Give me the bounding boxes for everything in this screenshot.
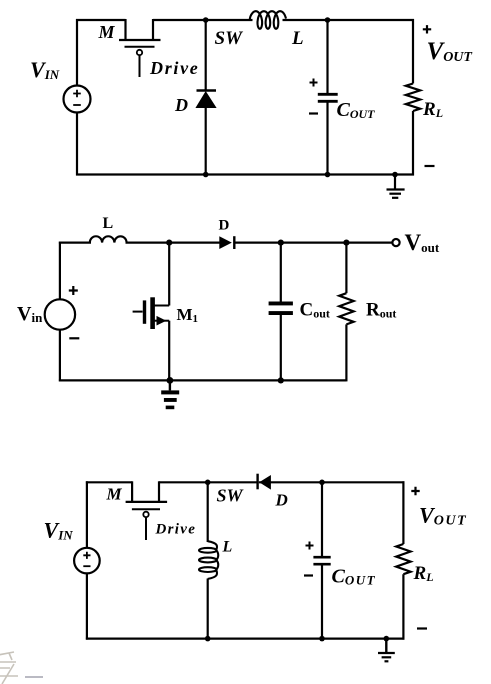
wire right branch RL (buck-boost): [402, 481, 404, 544]
svg-text:M: M: [106, 485, 123, 504]
label minus output (buck): [425, 165, 435, 167]
wire diode to bottom rail (buck): [205, 107, 207, 175]
transistor M gate plate: [125, 46, 155, 48]
transistor M drain rise (buck-boost): [158, 481, 160, 502]
wire bottom rail (buck): [76, 173, 414, 175]
wire output node to COUT (buck): [326, 20, 328, 93]
diode D triangle (buck): [196, 92, 215, 108]
ground symbol (buck): [394, 175, 396, 190]
wire bottom rail (boost): [59, 379, 347, 381]
wire top rail inductor to output node (buck): [283, 19, 415, 21]
wire bottom rail (buck-boost): [86, 637, 405, 639]
wire right branch RL (buck): [412, 19, 414, 84]
transistor M source drop (buck-boost): [131, 481, 133, 502]
source VIN plus sign: [73, 90, 81, 98]
svg-text:D: D: [275, 491, 288, 510]
transistor M gate bubble (buck-boost): [143, 512, 148, 517]
transistor M gate wire: [139, 55, 141, 77]
svg-text:D: D: [219, 218, 230, 234]
node Rout top junction dot (boost): [343, 240, 349, 246]
capacitor COUT plus sign (buck-boost): [306, 542, 314, 550]
capacitor COUT bottom plate (buck): [318, 100, 338, 103]
svg-text:RL: RL: [413, 563, 434, 584]
wire top rail diode to right (buck-boost): [259, 481, 405, 483]
svg-text:Vin: Vin: [17, 303, 43, 325]
wire output node to COUT (buck-boost): [321, 482, 323, 556]
resistor RL zigzag (buck-boost): [396, 544, 410, 574]
svg-text:SW: SW: [217, 486, 245, 506]
ground symbol (buck-boost): [385, 639, 387, 653]
label minus output (buck-boost): [417, 627, 427, 629]
diode D cathode bar (buck): [197, 89, 217, 91]
watermark fragment: [0, 652, 43, 684]
svg-text:Drive: Drive: [155, 522, 197, 538]
capacitor Cout top plate (boost): [269, 302, 293, 306]
svg-text:Cout: Cout: [300, 300, 330, 321]
node drain junction dot (boost): [166, 240, 172, 246]
svg-text:VIN: VIN: [44, 518, 74, 543]
inductor L coil (buck): [250, 11, 286, 29]
capacitor COUT top plate (buck): [318, 93, 338, 96]
label plus Vin (boost): [69, 286, 78, 295]
node output top junction dot (buck-boost): [319, 480, 325, 486]
transistor M top plate: [119, 39, 161, 41]
svg-text:L: L: [103, 215, 114, 232]
wire SW to inductor (buck-boost): [207, 482, 209, 542]
svg-text:L: L: [222, 539, 233, 556]
wire ground stem (boost): [169, 380, 171, 390]
wire left branch VIN (buck): [76, 19, 78, 85]
transistor M top plate (buck-boost): [126, 501, 168, 503]
wire top rail SW segment (buck-boost): [159, 481, 257, 483]
source VIN circle (buck): [64, 86, 91, 113]
wire Rout node down (boost): [345, 243, 347, 294]
transistor M source drop (buck): [124, 19, 126, 40]
svg-text:Vout: Vout: [405, 230, 440, 255]
svg-text:VOUT: VOUT: [427, 38, 474, 65]
transistor M gate plate (buck-boost): [132, 508, 160, 510]
label plus output (buck): [423, 25, 431, 33]
transistor M1 gate lead (boost): [133, 311, 143, 313]
transistor M gate bubble: [137, 50, 142, 55]
node COUT bottom junction dot (buck-boost): [319, 636, 325, 642]
diode D triangle (buck-boost): [259, 475, 271, 490]
svg-text:M1: M1: [177, 305, 199, 325]
resistor RL zigzag (buck): [406, 84, 420, 112]
node ground junction dot (buck): [392, 172, 398, 178]
svg-text:COUT: COUT: [337, 99, 376, 121]
node SW junction dot (buck): [203, 17, 209, 23]
wire Cout to bottom rail (boost): [280, 315, 282, 380]
svg-text:VOUT: VOUT: [419, 503, 467, 529]
capacitor COUT minus sign (buck-boost): [304, 574, 313, 576]
wire COUT to bottom rail (buck-boost): [321, 566, 323, 639]
wire top rail mid segment SW node to inductor (buck): [153, 19, 253, 21]
transistor M1 source stub: [154, 320, 169, 322]
terminal Vout circle (boost): [392, 239, 399, 246]
capacitor COUT top plate (buck-boost): [313, 556, 330, 559]
diode D triangle (boost): [219, 236, 232, 249]
wire drain node down to M1 (boost): [168, 243, 170, 306]
transistor M1 drain stub: [154, 305, 169, 307]
svg-text:VIN: VIN: [30, 57, 60, 82]
wire left branch VIN (buck-boost): [86, 481, 88, 548]
diode D cathode bar (buck-boost): [256, 474, 258, 490]
node ground junction dot (buck-boost): [384, 636, 390, 642]
wire diode to Vout terminal (boost): [236, 242, 393, 244]
svg-text:D: D: [174, 95, 188, 115]
svg-text:SW: SW: [215, 28, 244, 49]
capacitor Cout bottom plate (boost): [269, 311, 293, 315]
wire top rail left segment (buck): [76, 19, 126, 21]
capacitor COUT minus sign: [309, 112, 318, 114]
wire top rail left segment (buck-boost): [86, 481, 132, 483]
capacitor COUT bottom plate (buck-boost): [313, 563, 330, 566]
capacitor COUT plus sign: [310, 79, 318, 87]
transistor M1 channel bar: [150, 297, 155, 329]
svg-text:RL: RL: [422, 99, 443, 120]
svg-text:COUT: COUT: [332, 566, 377, 588]
wire inductor to drain node (boost): [126, 242, 220, 244]
node Cout top junction dot (boost): [278, 240, 284, 246]
transistor M gate wire (buck-boost): [145, 517, 147, 540]
svg-text:M: M: [98, 22, 116, 42]
node SW junction dot (buck-boost): [205, 480, 211, 486]
source VIN minus sign (buck-boost): [83, 565, 90, 567]
wire SW node to diode (buck): [205, 20, 207, 90]
transistor M1 source arrow: [157, 316, 167, 326]
ground symbol (boost): [161, 390, 179, 394]
transistor M drain rise (buck): [152, 19, 154, 40]
wire top rail left to inductor (boost): [59, 242, 91, 244]
label plus output (buck-boost): [411, 487, 419, 495]
svg-text:Rout: Rout: [366, 300, 396, 321]
node Cout bottom junction dot (boost): [278, 377, 284, 383]
wire inductor to bottom rail (buck-boost): [207, 579, 209, 639]
wire Rout to bottom rail (boost): [345, 324, 347, 381]
source VIN circle (buck-boost): [74, 548, 100, 574]
inductor L (boost): [90, 236, 127, 242]
transistor M1 gate bar: [143, 300, 146, 323]
node diode bottom junction dot (buck): [203, 172, 209, 178]
node ground junction dot (boost): [167, 377, 174, 384]
node inductor bottom junction dot (buck-boost): [205, 636, 211, 642]
source VIN minus sign: [73, 104, 81, 106]
svg-text:Drive: Drive: [149, 58, 199, 78]
wire Cout node down (boost): [280, 243, 282, 302]
source Vin circle (boost): [45, 299, 75, 329]
source VIN plus sign (buck-boost): [83, 552, 90, 559]
svg-text:L: L: [291, 28, 304, 49]
node COUT bottom junction dot (buck): [325, 172, 331, 178]
label minus Vin (boost): [69, 337, 79, 339]
wire M1 source to ground rail (boost): [168, 321, 170, 381]
node output top junction dot (buck): [325, 17, 331, 23]
inductor L coil (buck-boost): [199, 548, 217, 553]
wire COUT to bottom rail (buck): [326, 103, 328, 175]
diode D cathode bar (boost): [233, 236, 235, 249]
resistor Rout zigzag (boost): [339, 293, 353, 324]
wire left branch Vin (boost): [59, 242, 61, 300]
